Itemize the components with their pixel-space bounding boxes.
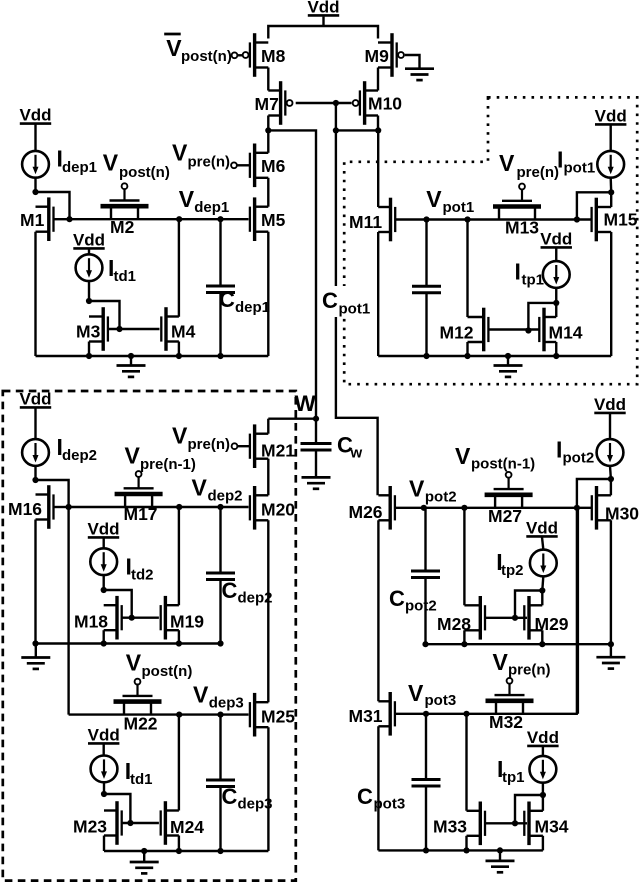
current source Itp1 bottom bbox=[530, 756, 557, 783]
junction Vdep3 bbox=[176, 712, 182, 718]
svg-text:M16: M16 bbox=[8, 499, 42, 519]
svg-text:dep1: dep1 bbox=[235, 299, 270, 316]
wire M30 diode bbox=[577, 479, 611, 508]
transistor M4 bbox=[161, 307, 195, 351]
label Vdep2 bbox=[192, 475, 243, 505]
junction Cdep2 top bbox=[217, 504, 223, 510]
power Vdd (Itp1 bottom) bbox=[527, 728, 559, 747]
junction W bbox=[313, 416, 319, 422]
svg-text:post(n): post(n) bbox=[142, 663, 193, 680]
wire Cdep1 branch bbox=[219, 219, 221, 286]
wire M20 source to M25 drain bbox=[267, 520, 269, 702]
transistor M14 bbox=[539, 308, 583, 352]
transistor M7 bbox=[255, 81, 293, 125]
power Vdd (Ipot1) bbox=[595, 107, 627, 126]
wire Itp2 down bbox=[542, 576, 543, 590]
svg-text:post(n): post(n) bbox=[119, 164, 170, 181]
junction brail2 M33 bbox=[463, 847, 469, 853]
terminal Vpre(n) M6 bbox=[231, 162, 237, 168]
wire Itd1 to M3 bbox=[88, 281, 90, 301]
wire M34 drain up bbox=[542, 795, 544, 811]
wire Cpot1 to rail bbox=[425, 293, 427, 356]
wire M31 source down bbox=[377, 726, 379, 850]
wire Idep2 to M16 bbox=[34, 466, 36, 480]
junction M12 drain top bbox=[464, 216, 470, 222]
junction node M7/M6 bbox=[265, 127, 271, 133]
junction midrail Cpot2 bbox=[422, 641, 428, 647]
svg-text:M6: M6 bbox=[261, 156, 286, 176]
junction gate bus bbox=[333, 100, 339, 106]
label Itd1 bottom bbox=[125, 758, 153, 788]
wire Cw to ground bbox=[315, 450, 317, 477]
junction M10 source bbox=[375, 127, 381, 133]
wire Vdd to Ipot1 bbox=[610, 125, 612, 151]
wire M29 diode bbox=[515, 591, 542, 618]
label Vpost(n) at M22 bbox=[126, 650, 193, 681]
transistor M33 bbox=[433, 802, 485, 846]
svg-text:M22: M22 bbox=[124, 714, 158, 734]
svg-text:pot2: pot2 bbox=[563, 450, 595, 467]
label Idep1 bbox=[57, 146, 98, 177]
wire bottom-left ground rail bbox=[104, 850, 268, 852]
label Vpost(n-1) at M27 bbox=[455, 443, 535, 473]
wire Cpot3 to rail bbox=[425, 786, 427, 850]
svg-text:M10: M10 bbox=[368, 94, 402, 114]
svg-text:M5: M5 bbox=[261, 210, 286, 230]
capacitor Cpot2 bbox=[411, 571, 440, 578]
svg-text:td1: td1 bbox=[114, 268, 137, 285]
svg-text:post(n-1): post(n-1) bbox=[471, 456, 535, 473]
junction M33/M34 gates bbox=[512, 820, 518, 826]
svg-text:M34: M34 bbox=[535, 817, 569, 837]
junction Cdep3 top bbox=[217, 712, 223, 718]
wire M19 drain branch bbox=[178, 507, 180, 605]
svg-text:tp1: tp1 bbox=[522, 272, 545, 289]
label Cdep1 bbox=[219, 287, 270, 316]
wire Idep1 to M1 drain bbox=[34, 178, 36, 192]
label Cpot3 bbox=[357, 784, 405, 813]
wire M34 source bbox=[542, 836, 544, 851]
wire M11 gate bbox=[395, 218, 426, 220]
wire M34 diode bbox=[515, 795, 543, 823]
wire right ground rail bbox=[378, 355, 611, 357]
svg-text:V: V bbox=[426, 186, 442, 212]
junction M14 drain bbox=[553, 300, 559, 306]
power Vdd (Itd1 top) bbox=[73, 231, 105, 250]
wire M30 gate node down to M32 bbox=[576, 508, 578, 714]
wire M3 diode bbox=[89, 301, 120, 329]
wire M21 source to M20 bbox=[267, 459, 269, 496]
wire Cpot2 to rail bbox=[424, 578, 426, 645]
wire M1 source to rail bbox=[34, 232, 36, 356]
svg-text:M13: M13 bbox=[505, 218, 539, 238]
junction M3/M4 gates bbox=[116, 326, 122, 332]
wire M29 drain up bbox=[541, 591, 543, 606]
label Vpre(n) at M21 bbox=[172, 423, 230, 454]
svg-text:Vdd: Vdd bbox=[540, 230, 572, 249]
junction midrail Cdep2 bbox=[217, 640, 223, 646]
transistor M34 bbox=[524, 802, 569, 846]
capacitor Cw bbox=[301, 444, 332, 451]
svg-text:dep2: dep2 bbox=[62, 447, 97, 464]
wire mid column to lower right bbox=[336, 130, 378, 495]
wire M15 diode bbox=[577, 192, 611, 219]
wire M16 diode bbox=[36, 480, 69, 507]
wire M26 source down bbox=[377, 520, 379, 701]
junction M1 drain bbox=[32, 189, 38, 195]
junction midrail M16 bbox=[32, 640, 38, 646]
label Ipot1 bbox=[557, 147, 595, 177]
junction Cdep1 top bbox=[217, 216, 223, 222]
svg-text:M28: M28 bbox=[437, 614, 471, 634]
svg-text:M18: M18 bbox=[74, 612, 108, 632]
wire M6 gate bbox=[237, 164, 249, 166]
current source Ipot1 bbox=[597, 151, 624, 178]
transistor M16 bbox=[8, 485, 54, 529]
label Itp2 bbox=[496, 549, 523, 579]
svg-text:M4: M4 bbox=[171, 322, 196, 342]
svg-text:Vdd: Vdd bbox=[526, 519, 558, 538]
wire top rail bbox=[268, 26, 378, 39]
svg-text:dep2: dep2 bbox=[208, 488, 243, 505]
transistor M27 (pass gate) bbox=[485, 472, 533, 526]
power Vdd (Idep1) bbox=[19, 106, 51, 125]
svg-text:Vdd: Vdd bbox=[527, 728, 559, 747]
svg-text:pot2: pot2 bbox=[405, 598, 437, 615]
wire Vpot1 row bbox=[427, 218, 592, 220]
svg-text:tp2: tp2 bbox=[501, 562, 524, 579]
wire M12 gate bus bbox=[488, 328, 540, 330]
wire W to Cw bbox=[315, 419, 317, 444]
svg-text:dep2: dep2 bbox=[238, 590, 273, 607]
wire M18 source bbox=[102, 630, 104, 643]
svg-text:M2: M2 bbox=[110, 217, 135, 237]
junction node Vdep1 input bbox=[66, 216, 72, 222]
junction M28 drain top bbox=[461, 505, 467, 511]
transistor M2 (pass gate) bbox=[101, 183, 149, 237]
junction brail2 gnd bbox=[497, 847, 503, 853]
svg-text:pre(n): pre(n) bbox=[517, 164, 560, 181]
svg-text:Vdd: Vdd bbox=[307, 0, 339, 17]
transistor M23 bbox=[73, 801, 122, 845]
transistor M29 bbox=[524, 596, 569, 640]
wire term to M8 gate bbox=[237, 54, 242, 56]
wire M12 source bbox=[466, 342, 468, 356]
svg-text:C: C bbox=[222, 784, 238, 809]
junction rail gnd bbox=[128, 353, 134, 359]
svg-text:pot2: pot2 bbox=[425, 489, 457, 506]
wire M15 source down bbox=[610, 232, 612, 356]
label Vpost(n) at M2 bbox=[103, 150, 170, 182]
wire M24 source bbox=[178, 836, 180, 852]
svg-text:W: W bbox=[295, 391, 317, 416]
wire Ipot2 down bbox=[609, 466, 612, 479]
wire Vdd to Ipot2 bbox=[609, 414, 611, 439]
junction brail2 Cpot3 bbox=[423, 847, 429, 853]
junction brail gnd bbox=[141, 848, 147, 854]
wire M18 diode bbox=[104, 590, 132, 618]
wire M31 gate bbox=[395, 713, 426, 715]
ground (bottom-left) bbox=[130, 851, 159, 873]
label Cpot1 bbox=[322, 288, 370, 318]
transistor M11 bbox=[349, 198, 395, 242]
transistor M22 (pass gate) bbox=[114, 679, 162, 734]
wire M28 drain branch bbox=[463, 508, 465, 605]
svg-text:M17: M17 bbox=[124, 504, 158, 524]
junction M28/M29 gates bbox=[512, 615, 518, 621]
capacitor Cdep1 bbox=[206, 286, 235, 293]
current source Itd1 bottom bbox=[91, 756, 118, 783]
svg-text:pot1: pot1 bbox=[564, 160, 596, 177]
transistor M3 bbox=[76, 307, 108, 351]
wire Cdep2 branch bbox=[219, 507, 221, 573]
wire Vpot3 row bbox=[426, 713, 578, 715]
wire Vdd to Itp1b bbox=[542, 747, 544, 756]
junction rail M4 bbox=[176, 353, 182, 359]
junction midrail M18 bbox=[101, 640, 107, 646]
wire gate bus down bbox=[335, 103, 337, 130]
svg-text:Vdd: Vdd bbox=[19, 390, 51, 409]
label Cdep3 bbox=[222, 784, 273, 813]
transistor M21 bbox=[250, 424, 295, 468]
label Vpre(n) at M6 bbox=[172, 140, 230, 171]
svg-text:V: V bbox=[179, 186, 195, 212]
svg-text:M32: M32 bbox=[489, 712, 523, 732]
power Vdd (Itp2) bbox=[526, 519, 558, 538]
label Vpre(n) at M13 bbox=[499, 150, 559, 181]
wire Vdd to Idep2 bbox=[34, 408, 36, 439]
wire M25 source to rail bbox=[267, 727, 269, 851]
junction Vdep1 bbox=[176, 216, 182, 222]
junction mid column bbox=[333, 127, 339, 133]
wire M9 drain to M10 bbox=[377, 68, 379, 91]
junction M23/M24 gates bbox=[127, 820, 133, 826]
label Cw bbox=[337, 433, 363, 462]
svg-text:M1: M1 bbox=[20, 210, 45, 230]
svg-text:pre(n-1): pre(n-1) bbox=[140, 456, 196, 473]
wire bottom-right ground rail bbox=[378, 849, 543, 851]
transistor M32 (pass gate) bbox=[486, 678, 534, 732]
terminal Vpre(n) M21 bbox=[232, 443, 238, 449]
wire M16 source to rail bbox=[34, 520, 36, 644]
wire node to W column bbox=[268, 130, 316, 418]
label Cpot2 bbox=[389, 586, 437, 615]
junction M30 drain bbox=[608, 476, 614, 482]
svg-text:M31: M31 bbox=[349, 706, 383, 726]
svg-text:M26: M26 bbox=[349, 502, 383, 522]
wire M7/M10 gate bus bbox=[296, 102, 352, 104]
label Vpost(n) inverted bbox=[164, 34, 232, 65]
svg-text:tp1: tp1 bbox=[502, 769, 525, 786]
junction rail Cdep1 bbox=[217, 353, 223, 359]
svg-text:M25: M25 bbox=[261, 707, 295, 727]
label Vpre(n-1) at M17 bbox=[125, 443, 196, 474]
svg-text:dep1: dep1 bbox=[62, 159, 97, 176]
svg-text:post(n): post(n) bbox=[181, 48, 232, 65]
svg-text:M29: M29 bbox=[535, 614, 569, 634]
wire Vdd to Itp1 bbox=[555, 248, 557, 261]
svg-text:M7: M7 bbox=[255, 94, 279, 114]
svg-text:M20: M20 bbox=[261, 500, 295, 520]
wire Vdd to Itp2 bbox=[542, 537, 543, 549]
current source Idep1 bbox=[22, 151, 49, 178]
svg-text:M21: M21 bbox=[261, 441, 295, 461]
current source Itd2 bbox=[90, 548, 117, 575]
dashed boundary depression block bbox=[3, 391, 296, 881]
dotted boundary potentiation block bbox=[344, 97, 637, 384]
svg-text:w: w bbox=[350, 445, 363, 462]
svg-text:dep3: dep3 bbox=[238, 796, 273, 813]
transistor M1 bbox=[20, 197, 54, 241]
junction rail M14 bbox=[553, 353, 559, 359]
wire Itd2 to M18 bbox=[102, 575, 104, 590]
label Itp1 bottom bbox=[497, 756, 525, 786]
wire M1 gate bbox=[54, 218, 70, 220]
svg-text:pot3: pot3 bbox=[425, 692, 457, 709]
svg-text:M24: M24 bbox=[170, 817, 204, 837]
ground (Cw) bbox=[302, 477, 331, 489]
svg-text:V: V bbox=[103, 150, 119, 176]
wire M6 source to M5 drain bbox=[267, 178, 269, 207]
ground (mid-right) bbox=[596, 644, 625, 668]
label Vpot1 bbox=[426, 186, 474, 216]
svg-text:Vdd: Vdd bbox=[88, 726, 120, 745]
junction M18/M19 gates bbox=[129, 615, 135, 621]
transistor M17 (pass gate) bbox=[115, 471, 163, 524]
transistor M20 bbox=[250, 486, 295, 530]
capacitor Cpot3 bbox=[412, 780, 441, 787]
junction M34 drain bbox=[540, 792, 546, 798]
wire Vdd to Itd2 bbox=[102, 538, 104, 548]
junction M29 drain bbox=[539, 587, 545, 593]
current source Idep2 bbox=[22, 439, 49, 466]
power Vdd (Itp1 top) bbox=[540, 230, 572, 249]
svg-text:M3: M3 bbox=[76, 322, 101, 342]
label Ipot2 bbox=[556, 437, 594, 467]
wire M15 drain up bbox=[610, 192, 612, 207]
junction brail M24 bbox=[176, 848, 182, 854]
wire Cdep1 to rail bbox=[219, 293, 221, 357]
wire M28 gate bus bbox=[485, 617, 527, 619]
current source Ipot2 bbox=[597, 439, 624, 466]
svg-text:C: C bbox=[389, 586, 405, 611]
junction midrail M19 bbox=[176, 640, 182, 646]
power Vdd (Itd1 bottom) bbox=[88, 726, 120, 745]
capacitor Cpot1 bbox=[412, 286, 441, 293]
svg-text:Vdd: Vdd bbox=[594, 395, 626, 414]
power Vdd (Itd2) bbox=[87, 520, 119, 539]
junction M23 drain bbox=[101, 791, 107, 797]
svg-text:pre(n): pre(n) bbox=[508, 662, 551, 679]
label Vpre(n) at M32 bbox=[493, 649, 551, 679]
label Cdep2 bbox=[222, 578, 273, 607]
wire Itd1b to M23 bbox=[103, 782, 105, 794]
transistor M26 bbox=[349, 486, 395, 530]
wire mid-right ground rail bbox=[426, 643, 611, 645]
power Vdd (Idep2) bbox=[19, 390, 51, 409]
transistor M24 bbox=[161, 801, 205, 845]
capacitor Cdep3 bbox=[206, 780, 235, 787]
wire M4 drain branch bbox=[178, 219, 180, 317]
svg-text:pot1: pot1 bbox=[443, 199, 475, 216]
transistor M5 bbox=[250, 197, 286, 241]
wire Vdd stub to top rail bbox=[322, 17, 324, 27]
wire Itp1b down bbox=[542, 783, 544, 795]
svg-text:C: C bbox=[357, 784, 373, 809]
current source Itd1 top bbox=[76, 254, 103, 281]
ground (M9 gate) bbox=[405, 69, 434, 81]
wire M23 gate bus bbox=[122, 822, 159, 824]
wire M14 source bbox=[555, 342, 557, 356]
junction Vdep2 bbox=[176, 504, 182, 510]
svg-text:M33: M33 bbox=[433, 817, 467, 837]
label Vdep3 bbox=[193, 682, 244, 712]
wire Vdep2 row bbox=[69, 506, 249, 508]
svg-text:pre(n): pre(n) bbox=[188, 436, 231, 453]
wire M33 gate bus bbox=[485, 822, 527, 824]
junction midrail M30 bbox=[608, 641, 614, 647]
wire M8 drain to M7 bbox=[267, 68, 269, 91]
junction M18 drain bbox=[101, 587, 107, 593]
svg-text:V: V bbox=[126, 650, 142, 676]
junction rail Cpot1 bbox=[423, 353, 429, 359]
junction midrail M28 bbox=[461, 641, 467, 647]
wire Cpot3 branch bbox=[425, 714, 427, 780]
wire Vpot2 row bbox=[424, 507, 592, 509]
transistor M10 bbox=[353, 81, 403, 125]
transistor M28 bbox=[437, 596, 485, 640]
wire M21 gate bbox=[237, 445, 249, 447]
label Itd1 top bbox=[108, 255, 136, 285]
svg-text:V: V bbox=[166, 35, 182, 61]
svg-text:V: V bbox=[409, 476, 425, 502]
svg-text:C: C bbox=[322, 288, 338, 313]
svg-text:C: C bbox=[219, 287, 235, 312]
svg-text:V: V bbox=[408, 680, 424, 706]
label Itd2 bbox=[126, 554, 154, 584]
wire M26 gate bbox=[395, 507, 424, 509]
wire M19 source bbox=[178, 630, 180, 643]
svg-text:pre(n): pre(n) bbox=[188, 154, 231, 171]
svg-text:V: V bbox=[455, 443, 471, 469]
svg-text:I: I bbox=[557, 147, 563, 173]
svg-text:V: V bbox=[125, 443, 141, 469]
wire M6 drain up bbox=[267, 130, 269, 152]
svg-text:dep3: dep3 bbox=[209, 695, 244, 712]
transistor M15 bbox=[592, 198, 638, 242]
svg-text:M14: M14 bbox=[549, 323, 583, 343]
wire M33 drain branch bbox=[465, 714, 467, 811]
junction M3 drain bbox=[86, 298, 92, 304]
svg-text:V: V bbox=[499, 150, 515, 176]
junction M15 gate node bbox=[574, 216, 580, 222]
transistor M12 bbox=[440, 308, 489, 352]
wire M33 source bbox=[465, 836, 467, 851]
junction brail Cdep3 bbox=[217, 848, 223, 854]
junction Cpot2 top bbox=[421, 505, 427, 511]
wire W row to M21 bbox=[268, 418, 316, 420]
wire mid-left ground rail bbox=[36, 642, 221, 644]
svg-text:V: V bbox=[192, 475, 208, 501]
wire M24 drain branch bbox=[178, 715, 180, 811]
label Cpot1 backing bbox=[318, 286, 375, 317]
junction rail gnd right bbox=[505, 353, 511, 359]
wire Vdd to Itd1b bbox=[102, 744, 104, 755]
svg-text:V: V bbox=[193, 682, 209, 708]
junction M30 gate node bbox=[574, 505, 580, 511]
transistor M30 bbox=[592, 486, 640, 530]
junction M12/M14 gates bbox=[525, 327, 531, 333]
